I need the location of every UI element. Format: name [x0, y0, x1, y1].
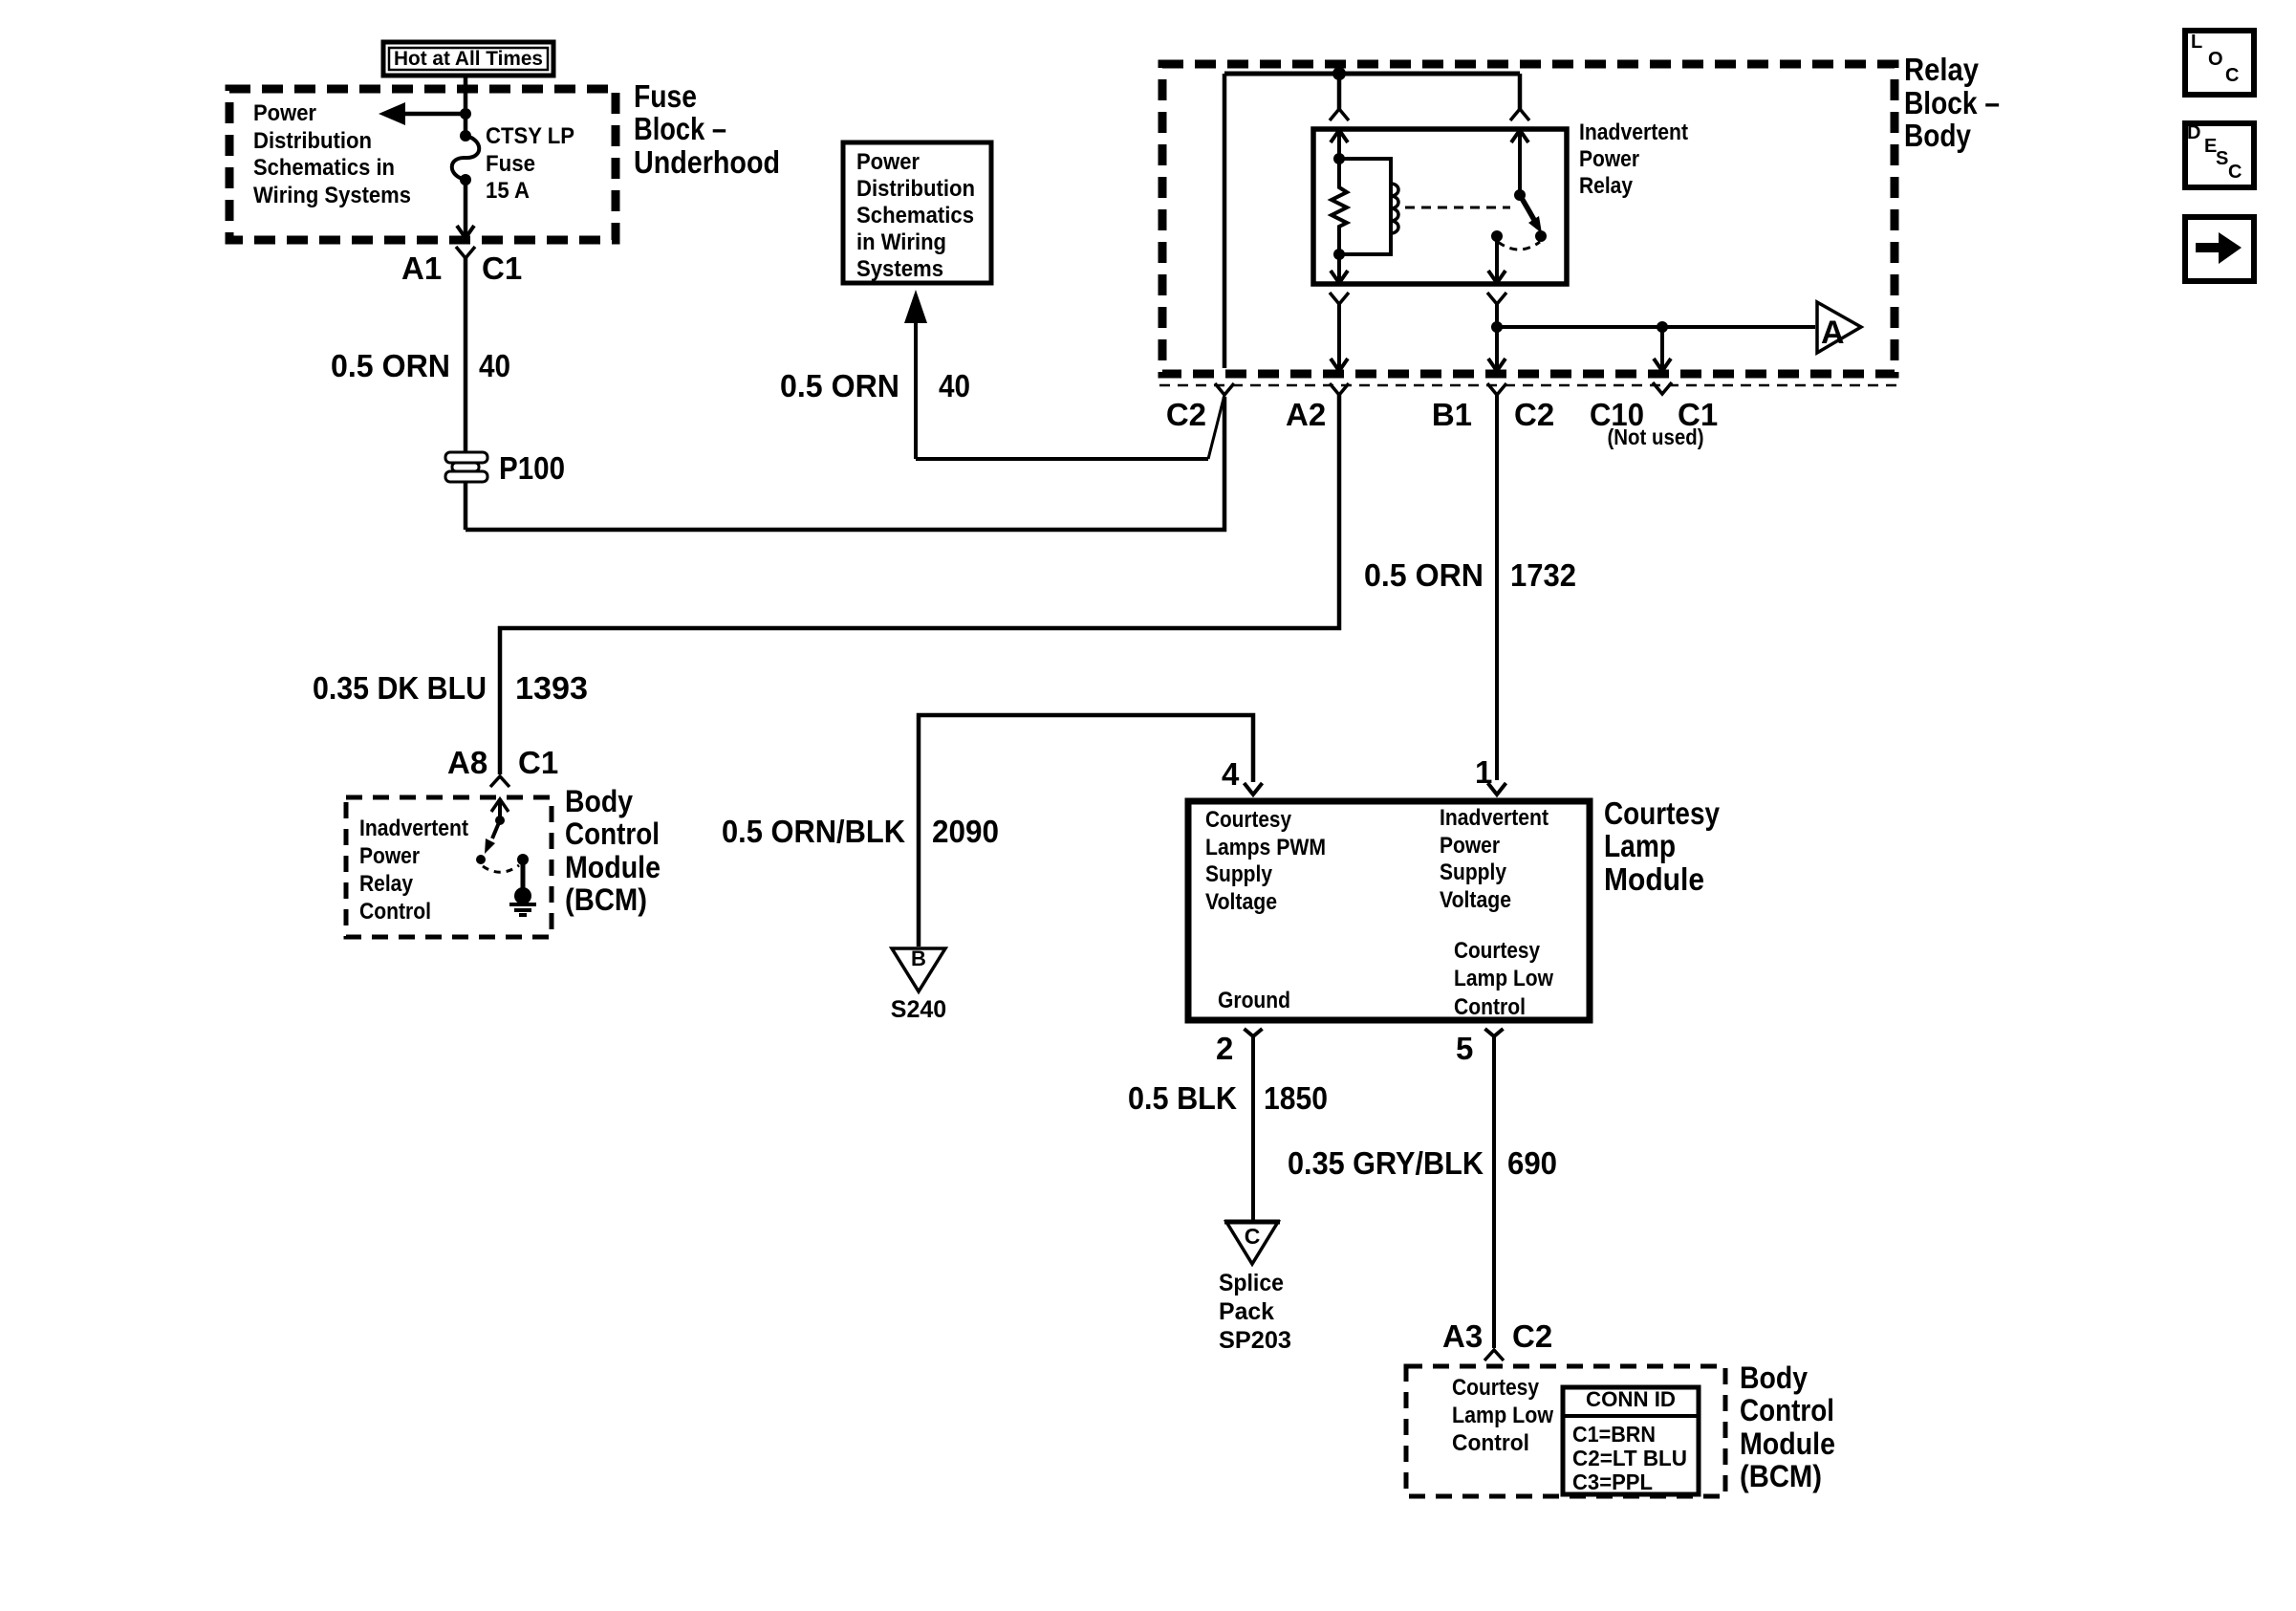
svg-text:0.5 ORN: 0.5 ORN: [331, 348, 450, 383]
body control module (dashed box, left): [346, 797, 552, 937]
pin 4 fork: [1245, 783, 1263, 795]
relay resistor: [1332, 159, 1347, 254]
svg-text:C1=BRN: C1=BRN: [1572, 1422, 1656, 1447]
svg-text:Module: Module: [1604, 861, 1704, 897]
svg-text:40: 40: [939, 368, 970, 403]
relay pin forks below box: [1330, 293, 1506, 304]
relay block connector interface line: [1159, 384, 1897, 387]
power feed label box "Hot at All Times": [383, 42, 553, 76]
svg-text:Hot at All Times: Hot at All Times: [394, 48, 543, 70]
wire: B1/C2 down to lamp module pin 1 (0.5 ORN 1732): [1495, 395, 1499, 780]
pin function: Courtesy Lamp Low Control (BCM): [1452, 1375, 1553, 1456]
connector C2 (left, power in): [1215, 383, 1234, 395]
svg-text:Power: Power: [1440, 833, 1500, 859]
svg-text:C2: C2: [1166, 397, 1206, 432]
svg-text:Courtesy: Courtesy: [1205, 807, 1292, 833]
svg-text:1850: 1850: [1264, 1080, 1328, 1116]
label Inadvertent Power Relay Control: [359, 816, 468, 925]
pin function: Inadvertent Power Supply Voltage: [1440, 805, 1549, 913]
node: switch NO contact: [1535, 230, 1547, 242]
relay coil ground pin (arrow down to A2): [1331, 254, 1348, 283]
svg-text:A: A: [1821, 315, 1845, 351]
node: switch contact: [476, 855, 486, 864]
node: C10 junction: [1657, 321, 1668, 333]
relay switch input pin (arrow up): [1511, 130, 1528, 195]
connector A1/C1 (fuse block output): [456, 226, 475, 258]
svg-text:C2=LT BLU: C2=LT BLU: [1572, 1446, 1687, 1470]
svg-text:Control: Control: [565, 816, 660, 851]
svg-text:Underhood: Underhood: [634, 144, 780, 180]
svg-text:A3: A3: [1442, 1318, 1483, 1354]
svg-text:Fuse: Fuse: [486, 151, 535, 177]
svg-text:L: L: [2191, 32, 2202, 53]
wire label 0.35 DK BLU 1393: [313, 670, 588, 706]
svg-text:0.35 GRY/BLK: 0.35 GRY/BLK: [1288, 1145, 1484, 1181]
connector forks into relay (coil pin, switch pin): [1330, 109, 1529, 120]
svg-text:690: 690: [1507, 1145, 1557, 1181]
svg-text:S: S: [2216, 148, 2228, 169]
CONN ID table: [1563, 1387, 1699, 1494]
svg-text:Relay: Relay: [359, 871, 414, 897]
relay block - body (dashed module box): [1162, 64, 1895, 374]
triangle connector C (splice pack): [1224, 1222, 1280, 1264]
svg-text:Power: Power: [856, 149, 920, 175]
svg-text:Inadvertent: Inadvertent: [359, 816, 468, 841]
icon forward arrow: [2185, 217, 2254, 281]
wire label 0.5 ORN 40: [331, 348, 510, 383]
wire label 0.5 ORN 40 (to power distribution): [780, 368, 970, 403]
svg-text:Body: Body: [565, 784, 633, 818]
svg-text:0.35 DK BLU: 0.35 DK BLU: [313, 670, 487, 706]
svg-text:C1: C1: [518, 745, 558, 780]
label Relay Block - Body: [1904, 52, 2000, 153]
svg-text:Courtesy: Courtesy: [1604, 795, 1721, 831]
svg-text:P100: P100: [499, 450, 565, 486]
svg-text:Supply: Supply: [1440, 860, 1507, 885]
label Courtesy Lamp Module: [1604, 795, 1721, 897]
BCM relay control switch: [485, 799, 509, 854]
svg-text:Control: Control: [1740, 1393, 1834, 1427]
svg-text:Power: Power: [1579, 146, 1639, 172]
wire: A2 to BCM (0.35 DK BLU 1393): [500, 395, 1339, 774]
svg-text:C: C: [1245, 1224, 1261, 1249]
wire: fuse output to connector C1: [464, 180, 468, 236]
label Body Control Module (BCM) bottom: [1740, 1361, 1835, 1493]
pin 1 fork: [1488, 783, 1506, 795]
svg-text:Ground: Ground: [1218, 988, 1290, 1013]
pin function: Courtesy Lamps PWM Supply Voltage: [1205, 807, 1326, 915]
svg-text:Lamp Low: Lamp Low: [1452, 1403, 1553, 1428]
label Inadvertent Power Relay: [1579, 120, 1688, 199]
svg-text:1393: 1393: [515, 670, 588, 706]
svg-text:Block –: Block –: [1904, 85, 2000, 120]
svg-text:Pack: Pack: [1219, 1298, 1274, 1325]
svg-text:Control: Control: [1454, 994, 1526, 1020]
pin 2 fork: [1245, 1029, 1263, 1036]
svg-text:B1: B1: [1432, 397, 1472, 432]
svg-text:Schematics: Schematics: [856, 203, 974, 229]
connector B1/C2: [1487, 383, 1506, 395]
body control module (dashed box, bottom): [1406, 1366, 1725, 1496]
svg-text:D: D: [2187, 122, 2200, 143]
svg-text:C2: C2: [1512, 1318, 1552, 1354]
relay switch output pin (arrow down to B1): [1488, 236, 1505, 283]
wire: pin 4 supply (0.5 ORN/BLK 2090): [919, 715, 1253, 947]
wire label 0.35 GRY/BLK 690: [1288, 1145, 1557, 1181]
label Body Control Module (BCM): [565, 784, 661, 917]
svg-text:Relay: Relay: [1579, 173, 1634, 199]
svg-text:Voltage: Voltage: [1440, 887, 1511, 913]
pin 5 fork: [1485, 1029, 1504, 1036]
wire: pin 5 to BCM A3 (0.35 GRY/BLK 690): [1492, 1036, 1496, 1348]
svg-text:B: B: [911, 947, 926, 970]
svg-text:Voltage: Voltage: [1205, 889, 1277, 915]
svg-text:0.5 ORN: 0.5 ORN: [1364, 557, 1484, 593]
svg-text:(Not used): (Not used): [1608, 425, 1704, 449]
pin labels A8 / C1: [447, 745, 558, 780]
svg-text:Control: Control: [1452, 1430, 1529, 1456]
relay coil: [1339, 159, 1391, 254]
svg-text:Wiring Systems: Wiring Systems: [253, 183, 411, 208]
svg-text:C1: C1: [482, 250, 522, 286]
inadvertent power relay (inner box): [1313, 129, 1567, 284]
svg-text:Module: Module: [1740, 1426, 1835, 1461]
svg-text:0.5 BLK: 0.5 BLK: [1128, 1080, 1237, 1116]
svg-text:SP203: SP203: [1219, 1327, 1291, 1354]
ground (BCM internal): [509, 854, 536, 915]
wire: relay A2 pin down to block edge: [1331, 304, 1348, 371]
connector C10 (not used): [1653, 382, 1672, 394]
svg-text:Courtesy: Courtesy: [1454, 938, 1541, 964]
svg-text:Lamp Low: Lamp Low: [1454, 966, 1553, 991]
svg-text:2: 2: [1216, 1031, 1233, 1066]
svg-text:5: 5: [1456, 1031, 1473, 1066]
svg-text:C3=PPL: C3=PPL: [1572, 1469, 1653, 1494]
pin labels A3 / C2: [1442, 1318, 1552, 1354]
svg-text:Power: Power: [359, 843, 420, 869]
icon DESC: [2185, 122, 2254, 187]
node: coil top: [1333, 153, 1345, 164]
svg-text:Lamps PWM: Lamps PWM: [1205, 835, 1326, 860]
svg-text:Courtesy: Courtesy: [1452, 1375, 1540, 1401]
svg-text:Body: Body: [1904, 118, 1972, 153]
svg-text:Power: Power: [253, 100, 316, 126]
svg-text:Lamp: Lamp: [1604, 828, 1676, 863]
relay coil supply pin (arrow up): [1331, 130, 1348, 159]
svg-text:C: C: [2228, 162, 2242, 183]
label CTSY LP Fuse 15 A: [486, 123, 574, 204]
wire: ground pin 2 (0.5 BLK 1850): [1251, 1036, 1255, 1221]
wire 0.5 ORN 40 (fuse to P100): [464, 258, 468, 530]
svg-text:4: 4: [1222, 756, 1240, 792]
wire arrow to power distribution schematics (left): [379, 102, 466, 125]
svg-text:Inadvertent: Inadvertent: [1440, 805, 1549, 831]
wire: relay B1 pin down to block edge: [1488, 304, 1505, 371]
svg-text:O: O: [2208, 49, 2223, 70]
wire label 0.5 BLK 1850: [1128, 1080, 1328, 1116]
svg-text:2090: 2090: [932, 814, 999, 849]
svg-text:(BCM): (BCM): [1740, 1459, 1822, 1493]
svg-text:A1: A1: [401, 250, 442, 286]
svg-text:CTSY LP: CTSY LP: [486, 123, 574, 149]
icon LOC: [2185, 31, 2254, 95]
wire: relay block top bus: [1224, 74, 1520, 368]
courtesy lamp module box: [1188, 801, 1590, 1020]
wire: P100 to relay block C2: [466, 397, 1224, 530]
svg-text:C2: C2: [1514, 397, 1554, 432]
svg-text:Splice: Splice: [1219, 1270, 1284, 1296]
svg-text:Schematics in: Schematics in: [253, 155, 395, 181]
svg-text:Supply: Supply: [1205, 861, 1273, 887]
svg-text:Block –: Block –: [634, 111, 726, 146]
svg-text:40: 40: [479, 348, 510, 383]
svg-text:C: C: [2225, 65, 2239, 86]
svg-text:0.5 ORN/BLK: 0.5 ORN/BLK: [722, 814, 905, 849]
grommet P100: [445, 452, 487, 482]
svg-text:1: 1: [1475, 754, 1492, 790]
svg-text:S240: S240: [891, 996, 946, 1023]
wire: stub to C10 (not used): [1654, 327, 1671, 371]
note: Power Distribution Schematics in Wiring Systems (fuse block): [253, 100, 411, 208]
svg-text:Control: Control: [359, 899, 431, 925]
wire: hot feed into fuse block: [464, 76, 468, 135]
svg-text:A8: A8: [447, 745, 487, 780]
svg-text:Body: Body: [1740, 1361, 1808, 1395]
connector fork A8/C1: [490, 776, 509, 787]
svg-text:in Wiring: in Wiring: [856, 229, 946, 255]
label Splice Pack SP203: [1219, 1270, 1291, 1354]
fuse block - underhood (dashed module box): [229, 89, 616, 240]
dashed alternate switch position arc: [1498, 242, 1540, 250]
node: B1 junction to connector A: [1491, 321, 1503, 333]
svg-text:CONN ID: CONN ID: [1586, 1387, 1676, 1411]
connector fork A3/C2: [1484, 1350, 1504, 1361]
svg-text:(BCM): (BCM): [565, 882, 647, 917]
svg-text:Relay: Relay: [1904, 52, 1980, 87]
svg-text:Module: Module: [565, 850, 661, 884]
wire label 0.5 ORN/BLK 2090: [722, 814, 999, 849]
node: coil bottom: [1333, 249, 1345, 260]
triangle connector B (splice S240): [892, 947, 945, 991]
svg-text:A2: A2: [1286, 397, 1326, 432]
dashed actuation link coil to switch: [1405, 207, 1510, 209]
wire 0.5 ORN 40 to power distribution box (with up arrow): [904, 290, 1224, 459]
reference box: Power Distribution Schematics in Wiring Systems: [843, 142, 991, 283]
fuse CTSY LP 15 A: [452, 130, 480, 185]
label Fuse Block - Underhood: [634, 78, 780, 180]
node: switch output contact: [1491, 230, 1503, 242]
svg-text:0.5 ORN: 0.5 ORN: [780, 368, 899, 403]
svg-text:Distribution: Distribution: [856, 176, 975, 202]
wire to triangle connector A: [1497, 325, 1815, 329]
dashed alternate position arc: [483, 865, 519, 872]
svg-text:Fuse: Fuse: [634, 78, 697, 114]
svg-text:1732: 1732: [1510, 557, 1576, 593]
svg-text:Distribution: Distribution: [253, 128, 372, 154]
node: bus junction: [1332, 67, 1346, 80]
connector A2: [1330, 383, 1349, 395]
relay switch blade: [1514, 189, 1542, 233]
triangle connector A (off-page): [1817, 302, 1861, 353]
pin function: Courtesy Lamp Low Control: [1454, 938, 1553, 1020]
svg-text:Systems: Systems: [856, 256, 943, 282]
wire label 0.5 ORN 1732: [1364, 557, 1576, 593]
svg-text:Inadvertent: Inadvertent: [1579, 120, 1688, 145]
svg-text:15 A: 15 A: [486, 178, 530, 204]
node: hot feed junction: [460, 108, 471, 120]
